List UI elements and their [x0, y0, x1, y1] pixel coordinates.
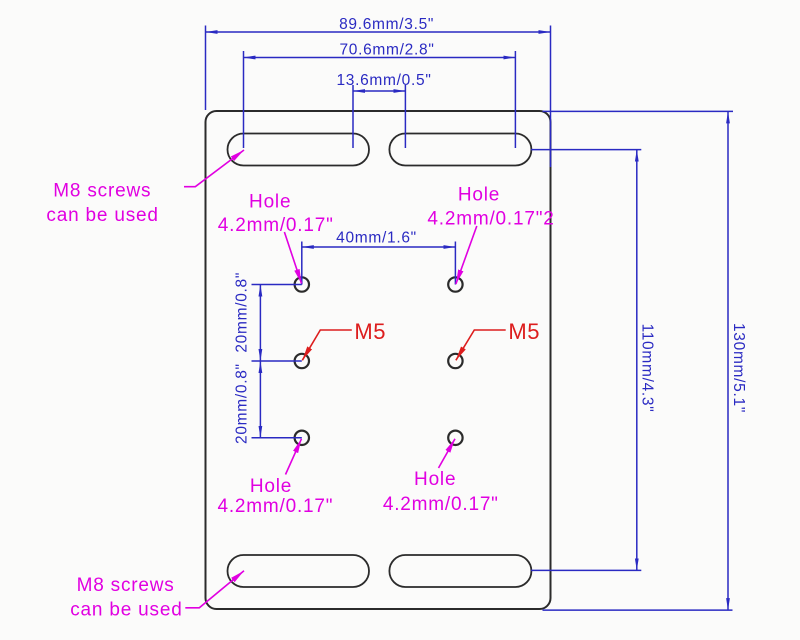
hole middle-left M5 [295, 354, 309, 368]
svg-text:M5: M5 [508, 319, 540, 344]
hole bottom-left 4.2mm [295, 431, 309, 445]
dimension 40mm/1.6" extension line left [301, 242, 303, 285]
dimension 130mm/5.1" line [727, 111, 729, 610]
svg-text:89.6mm/3.5": 89.6mm/3.5" [339, 16, 434, 33]
dimension 40mm/1.6" line [302, 246, 456, 248]
svg-text:can be used: can be used [70, 600, 182, 621]
leader hole bottom-right [439, 439, 456, 468]
dimension 13.6mm/0.5" line [353, 90, 405, 92]
svg-text:40mm/1.6": 40mm/1.6" [336, 229, 417, 246]
svg-text:130mm/5.1": 130mm/5.1" [730, 323, 747, 413]
dimension 89.6mm/3.5" line [206, 31, 551, 33]
dimension 70.6mm/2.8" extension line right [514, 51, 516, 148]
leader M8 bottom [185, 571, 244, 608]
dimension 110mm/4.3" tick top [531, 149, 641, 151]
dimension 20mm/0.8" lower line [259, 361, 261, 438]
tick line hole row 1 [252, 284, 302, 286]
svg-text:Hole: Hole [414, 469, 456, 490]
leader hole top-right [456, 226, 477, 284]
dimension 13.6mm/0.5" extension line right [404, 85, 406, 148]
leader hole bottom-left [286, 439, 302, 475]
dimension 70.6mm/2.8" line [244, 57, 516, 59]
dimension 110mm/4.3" tick bottom [531, 569, 641, 571]
plate outline [206, 111, 551, 609]
dimension 130mm/5.1" tick bottom [543, 609, 733, 611]
svg-text:Hole: Hole [458, 185, 500, 206]
svg-text:M8 screws: M8 screws [77, 575, 175, 596]
slot bottom-left [228, 555, 370, 587]
svg-text:Hole: Hole [250, 476, 292, 497]
svg-text:110mm/4.3": 110mm/4.3" [638, 324, 655, 413]
leader M5 left [302, 330, 352, 360]
slot top-left [228, 134, 370, 166]
tick line hole row 3 [252, 437, 302, 439]
svg-text:4.2mm/0.17"2: 4.2mm/0.17"2 [427, 209, 554, 230]
dimension 40mm/1.6" extension line right [454, 242, 456, 285]
slot top-right [389, 134, 531, 166]
svg-text:20mm/0.8": 20mm/0.8" [233, 363, 250, 444]
dimension 70.6mm/2.8" extension line left [243, 51, 245, 148]
svg-text:M8 screws: M8 screws [53, 181, 151, 202]
svg-text:4.2mm/0.17": 4.2mm/0.17" [218, 215, 334, 236]
dimension 13.6mm/0.5" extension line left [352, 85, 354, 148]
tick line hole row 2 [252, 360, 302, 362]
svg-text:70.6mm/2.8": 70.6mm/2.8" [339, 42, 434, 59]
slot bottom-right [389, 555, 531, 587]
svg-text:4.2mm/0.17": 4.2mm/0.17" [217, 496, 333, 517]
leader M8 top [184, 150, 244, 187]
dimension 110mm/4.3" line [636, 150, 638, 571]
dimension 20mm/0.8" upper line [259, 285, 261, 362]
hole top-left 4.2mm [295, 277, 309, 291]
svg-text:Hole: Hole [249, 191, 291, 212]
dimension 89.6mm/3.5" extension line left [205, 26, 207, 111]
leader M5 right [456, 330, 506, 360]
dimension 89.6mm/3.5" extension line right [550, 26, 552, 168]
svg-text:20mm/0.8": 20mm/0.8" [233, 272, 250, 353]
hole middle-right M5 [448, 354, 462, 368]
svg-text:can be used: can be used [46, 205, 158, 226]
hole top-right 4.2mm [448, 277, 462, 291]
hole bottom-right 4.2mm [448, 431, 462, 445]
leader hole top-left [284, 232, 301, 284]
svg-text:4.2mm/0.17": 4.2mm/0.17" [383, 494, 499, 515]
svg-text:M5: M5 [354, 319, 386, 344]
svg-text:13.6mm/0.5": 13.6mm/0.5" [336, 72, 431, 89]
dimension 130mm/5.1" tick top [543, 110, 734, 112]
